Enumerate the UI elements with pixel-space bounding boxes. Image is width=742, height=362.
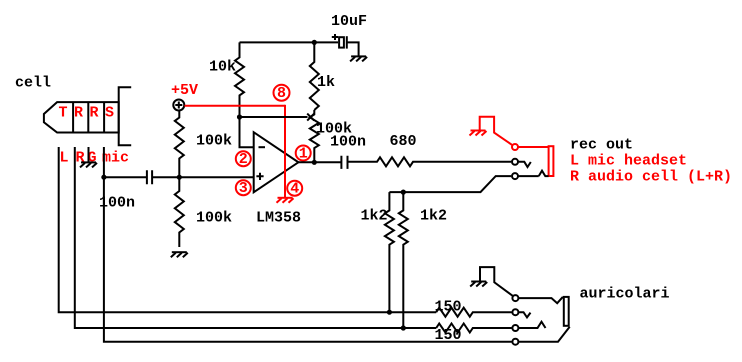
svg-text:100k: 100k xyxy=(196,210,232,227)
plug body bar red xyxy=(549,146,554,176)
svg-text:100n: 100n xyxy=(330,134,366,151)
svg-text:10k: 10k xyxy=(209,59,236,76)
op-amp U1 LM358 xyxy=(254,132,299,192)
terminal R xyxy=(512,325,518,331)
node mixer top junction xyxy=(401,190,406,195)
resistor R2 1k (pot top) xyxy=(310,42,319,110)
terminal mic contact xyxy=(512,159,518,165)
wire L xyxy=(59,147,437,312)
pin 1 label xyxy=(296,146,311,161)
pin 8 label xyxy=(274,85,290,101)
pin 2 label xyxy=(236,151,251,166)
node L rail junction xyxy=(387,310,392,315)
ground G1 xyxy=(351,55,366,57)
svg-text:+5V: +5V xyxy=(171,82,198,99)
wire +5V to pin8 (red) xyxy=(185,105,286,107)
svg-text:10uF: 10uF xyxy=(331,13,367,30)
terminal detect xyxy=(512,295,518,301)
node R rail junction xyxy=(401,325,406,330)
svg-text:LM358: LM358 xyxy=(256,210,301,227)
pot wiper arrow xyxy=(307,114,314,121)
svg-text:mic: mic xyxy=(102,150,129,167)
svg-text:R audio cell (L+R): R audio cell (L+R) xyxy=(570,169,732,186)
resistor R4 100k upper xyxy=(175,111,184,177)
svg-text:150: 150 xyxy=(435,327,462,344)
wire G xyxy=(88,147,90,162)
connector TRRS plug xyxy=(44,102,119,132)
resistor R6 680 xyxy=(348,157,512,166)
svg-text:4: 4 xyxy=(290,181,299,198)
capacitor C3 100n xyxy=(341,156,347,169)
svg-text:680: 680 xyxy=(390,133,417,150)
wire feedback over crossing xyxy=(278,116,292,118)
terminal ring contact xyxy=(512,173,518,179)
contact spring caret R xyxy=(518,322,545,328)
wire tip to sleeve bar red xyxy=(518,146,549,148)
svg-text:2: 2 xyxy=(239,151,248,168)
wire R xyxy=(75,147,436,328)
power +5V symbol xyxy=(173,100,184,111)
terminal tip red xyxy=(512,144,518,150)
terminal L xyxy=(512,309,518,315)
contact spring v xyxy=(518,162,531,167)
wire mixer node xyxy=(389,176,511,192)
node top rail junction xyxy=(312,40,317,45)
node mic junction xyxy=(101,175,106,180)
svg-text:cell: cell xyxy=(15,75,51,92)
plug detect bracket xyxy=(480,267,513,296)
wire detect to jack xyxy=(518,297,562,303)
capacitor C1 10uF xyxy=(339,37,344,47)
resistor R3 100k (pot bottom) xyxy=(310,110,319,162)
wire pin8 to pin4 ground (red) xyxy=(284,105,286,198)
plug detect bracket red xyxy=(480,117,512,145)
contact spring caret xyxy=(518,171,549,176)
node feedback junction xyxy=(237,114,242,119)
svg-text:1: 1 xyxy=(299,146,308,163)
wire sleeve to jack xyxy=(518,327,569,342)
wire output to cap xyxy=(298,161,341,163)
resistor R8 1k2 xyxy=(399,192,408,328)
ground G3 xyxy=(172,251,187,253)
wire top supply rail xyxy=(240,41,339,43)
ground pin4 (red) xyxy=(278,197,293,199)
resistor R1 10k xyxy=(235,42,244,117)
svg-text:3: 3 xyxy=(239,180,248,197)
svg-text:1k2: 1k2 xyxy=(361,208,388,225)
node output junction xyxy=(312,160,317,165)
ground G6 xyxy=(471,281,486,283)
node noninverting bias junction xyxy=(177,175,182,180)
connector socket bracket xyxy=(119,87,132,145)
resistor R7 1k2 xyxy=(385,192,394,312)
svg-text:auricolari: auricolari xyxy=(580,286,670,303)
pin 3 label xyxy=(236,180,251,195)
resistor R5 100k lower xyxy=(175,177,184,247)
jack body bar xyxy=(564,297,569,326)
contact spring v L xyxy=(518,312,530,317)
wire mic to cap xyxy=(104,176,147,178)
wire cap to noninverting input xyxy=(152,176,254,178)
terminal sleeve xyxy=(512,339,518,345)
svg-text:1k: 1k xyxy=(317,74,335,91)
resistor R10 150 bottom xyxy=(436,324,511,333)
ground G2 xyxy=(81,161,96,163)
capacitor C2 100n xyxy=(147,170,152,184)
wire mic down xyxy=(104,147,512,342)
resistor R9 150 top xyxy=(436,308,511,317)
svg-text:100k: 100k xyxy=(196,133,232,150)
ground G5 red xyxy=(471,130,486,132)
svg-text:R: R xyxy=(90,105,99,122)
svg-text:150: 150 xyxy=(435,299,462,316)
svg-text:8: 8 xyxy=(277,85,286,102)
pin 4 label xyxy=(287,181,302,196)
svg-text:R: R xyxy=(74,105,83,122)
svg-text:S: S xyxy=(105,105,114,122)
wire feedback to wiper xyxy=(240,116,308,118)
svg-text:100n: 100n xyxy=(99,195,135,212)
svg-text:L mic headset: L mic headset xyxy=(570,153,687,170)
wire cap to ground xyxy=(347,42,359,56)
svg-text:L: L xyxy=(60,150,69,167)
svg-text:1k2: 1k2 xyxy=(420,208,447,225)
svg-text:T: T xyxy=(59,105,68,122)
svg-text:rec out: rec out xyxy=(570,137,633,154)
wire node to inverting input xyxy=(240,117,254,147)
